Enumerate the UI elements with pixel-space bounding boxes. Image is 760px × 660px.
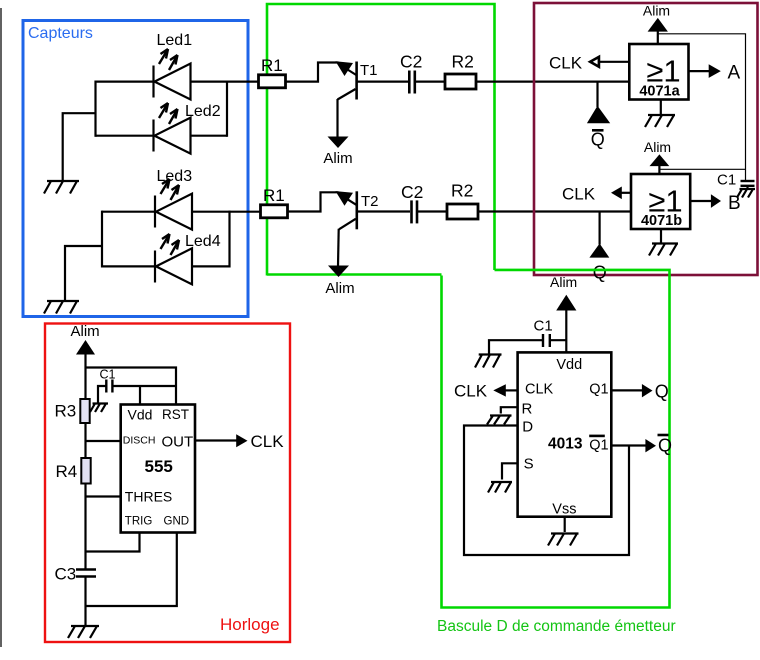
- wire R2 to gate 4071b input: [478, 210, 631, 212]
- resistor R4: [56, 458, 91, 484]
- svg-text:Vdd: Vdd: [556, 357, 582, 373]
- green box bascule D: [437, 270, 676, 635]
- svg-text:DISCH: DISCH: [123, 435, 156, 447]
- svg-text:C1: C1: [534, 318, 553, 335]
- wire Vdd/RST top loop: [86, 368, 177, 405]
- wire Led4 right: [192, 265, 230, 267]
- pin Vss to ground: [548, 517, 579, 546]
- Alim arrow T2: [325, 266, 354, 298]
- svg-text:Q1: Q1: [589, 438, 608, 454]
- svg-text:Alim: Alim: [643, 3, 670, 19]
- or-gate U1 4071a: [629, 44, 688, 100]
- transistor T2: [336, 191, 379, 229]
- svg-text:C1: C1: [717, 172, 736, 189]
- LED Led3: [155, 168, 192, 230]
- LED Led1: [154, 32, 193, 100]
- node Qbar junction wire: [596, 82, 598, 107]
- svg-text:Q: Q: [591, 130, 605, 150]
- transistor T1: [336, 61, 378, 99]
- Alim arrow 555: [71, 323, 100, 355]
- wire C2 to R2: [416, 80, 445, 82]
- wire DISCH: [86, 440, 122, 442]
- pin CLK output 4071b: [562, 185, 631, 204]
- wire GND: [86, 533, 177, 607]
- capacitor C2 (bottom): [401, 182, 423, 223]
- pin R to ground: [487, 407, 518, 424]
- resistor R1 (top): [259, 56, 286, 88]
- wire left rail group1: [94, 81, 96, 137]
- pin Q1bar output arrow: [611, 435, 672, 456]
- svg-text:Alim: Alim: [323, 150, 352, 167]
- Alim arrow 4071a: [643, 3, 670, 45]
- ground C1 (4013): [475, 355, 502, 368]
- wire D feedback loop: [464, 426, 629, 556]
- Alim arrow 4071b: [644, 139, 671, 175]
- resistor R1 (bottom): [261, 186, 288, 218]
- svg-text:CLK: CLK: [562, 185, 596, 204]
- pin B output 4071b: [690, 193, 740, 214]
- wire ground stub group2: [65, 246, 102, 301]
- wire TRIG: [86, 533, 140, 552]
- wire C1 to ground: [98, 386, 106, 403]
- svg-text:Horloge: Horloge: [220, 615, 280, 634]
- CLK output arrow (555): [236, 432, 284, 451]
- wire Led3 left to rail: [102, 211, 156, 213]
- ground C1 (555): [90, 404, 108, 413]
- svg-text:B: B: [728, 193, 741, 214]
- capacitor C1 (555): [100, 368, 116, 393]
- svg-text:Alim: Alim: [550, 274, 577, 290]
- svg-text:Capteurs: Capteurs: [28, 25, 93, 42]
- wire T1 emitter down: [336, 99, 338, 137]
- ground 4071b: [649, 229, 678, 256]
- wire THRES: [86, 495, 122, 497]
- wire R2 to gate 4071a input: [476, 80, 629, 82]
- wire right rail group1: [226, 81, 228, 137]
- wire Led1 right to R1: [191, 80, 260, 82]
- LED Led4: [155, 233, 221, 284]
- svg-text:Vss: Vss: [552, 501, 576, 517]
- Alim arrow T1: [323, 137, 352, 168]
- svg-text:CLK: CLK: [251, 432, 285, 451]
- svg-text:4071b: 4071b: [641, 213, 682, 229]
- wire Led2 right: [191, 135, 228, 137]
- svg-text:C2: C2: [400, 52, 422, 72]
- svg-text:R2: R2: [452, 52, 474, 72]
- svg-text:555: 555: [145, 457, 173, 476]
- capacitor C2 (top): [400, 52, 422, 94]
- svg-text:CLK: CLK: [525, 382, 554, 398]
- svg-text:THRES: THRES: [125, 489, 172, 505]
- svg-text:Bascule D de commande émetteur: Bascule D de commande émetteur: [437, 618, 676, 635]
- wire Led3 right to R1 row2: [192, 211, 261, 213]
- svg-text:CLK: CLK: [549, 54, 583, 73]
- svg-text:GND: GND: [164, 516, 190, 528]
- svg-text:Led2: Led2: [185, 103, 221, 120]
- wire Vdd feedback to C1: [658, 34, 746, 181]
- svg-text:C2: C2: [401, 182, 423, 202]
- svg-text:S: S: [524, 456, 534, 473]
- wire left rail group2: [101, 211, 103, 268]
- pin CLK input 4013: [454, 382, 518, 401]
- svg-text:RST: RST: [162, 407, 189, 422]
- svg-text:Led1: Led1: [157, 32, 193, 49]
- Alim arrow 4013: [550, 274, 577, 353]
- wire right rail group2: [228, 211, 230, 268]
- resistor R2 (top): [445, 52, 476, 90]
- svg-text:R2: R2: [451, 181, 473, 201]
- svg-text:C3: C3: [55, 565, 77, 584]
- svg-text:R1: R1: [261, 56, 283, 75]
- wire C1 to ground: [489, 340, 543, 353]
- svg-text:TRIG: TRIG: [125, 516, 153, 528]
- Capteurs box: [23, 21, 248, 317]
- wire Vdd 4071b to C1: [659, 168, 745, 170]
- Q terminal arrow: [589, 244, 609, 283]
- ground group2: [44, 301, 79, 314]
- svg-text:R3: R3: [55, 402, 77, 421]
- node Q junction wire: [598, 212, 600, 245]
- wire T2 emitter down: [337, 229, 340, 266]
- maroon box emitter gates: [534, 3, 758, 275]
- capacitor C1 (gates): [717, 172, 755, 190]
- pin Q1 output arrow: [611, 382, 669, 402]
- ground 4071a: [645, 100, 675, 128]
- LED Led2: [154, 103, 221, 154]
- svg-text:Alim: Alim: [71, 323, 100, 340]
- resistor R3: [55, 399, 90, 423]
- wire T2 collector to C2: [357, 210, 410, 212]
- ground 555: [68, 626, 99, 638]
- pin OUT wire: [195, 439, 237, 441]
- svg-text:A: A: [728, 63, 741, 84]
- capacitor C3: [55, 565, 97, 584]
- wire Led4 left: [102, 265, 156, 267]
- svg-text:R: R: [522, 401, 533, 418]
- svg-text:T2: T2: [361, 193, 379, 210]
- svg-text:Led3: Led3: [157, 168, 193, 185]
- svg-text:Vdd: Vdd: [128, 407, 153, 423]
- wire Led2 left: [96, 135, 155, 137]
- power rail 555: [84, 354, 86, 626]
- pin S to ground: [488, 463, 518, 492]
- svg-text:Q1: Q1: [589, 382, 608, 398]
- ground group1: [44, 181, 79, 194]
- svg-text:CLK: CLK: [454, 382, 488, 401]
- svg-text:D: D: [522, 419, 533, 436]
- svg-text:R1: R1: [263, 186, 285, 205]
- svg-text:4071a: 4071a: [639, 84, 680, 100]
- timer U3 555: [121, 405, 195, 533]
- svg-text:Q: Q: [593, 263, 607, 283]
- svg-text:OUT: OUT: [162, 434, 194, 451]
- svg-text:Alim: Alim: [644, 139, 671, 155]
- pin A output 4071a: [689, 63, 741, 84]
- green box amplifier: [267, 4, 495, 276]
- or-gate U2 4071b: [631, 174, 690, 229]
- wire R1 to T1 base: [286, 63, 339, 82]
- svg-text:T1: T1: [360, 62, 378, 79]
- red box Horloge: [45, 324, 290, 643]
- svg-text:C1: C1: [100, 368, 116, 382]
- wire Led1 left to rail: [96, 80, 155, 82]
- svg-text:Led4: Led4: [185, 233, 221, 250]
- svg-text:Alim: Alim: [325, 280, 354, 297]
- svg-text:Q: Q: [658, 436, 672, 456]
- page left border line: [0, 8, 2, 647]
- pin CLK output 4071a: [549, 54, 629, 73]
- flip-flop U4 4013: [518, 352, 612, 517]
- svg-text:Q: Q: [655, 382, 669, 402]
- svg-text:R4: R4: [56, 462, 78, 481]
- ground C1 (gates): [737, 189, 755, 198]
- capacitor C1 (4013): [534, 318, 567, 348]
- wire T1 collector to C2: [357, 80, 408, 82]
- wire C2 to R2: [418, 210, 447, 212]
- resistor R2 (bottom): [447, 181, 478, 220]
- svg-text:4013: 4013: [548, 436, 583, 453]
- wire ground stub group1: [63, 113, 96, 181]
- wire R1 to T2 base: [288, 192, 339, 211]
- Qbar terminal arrow: [587, 106, 610, 150]
